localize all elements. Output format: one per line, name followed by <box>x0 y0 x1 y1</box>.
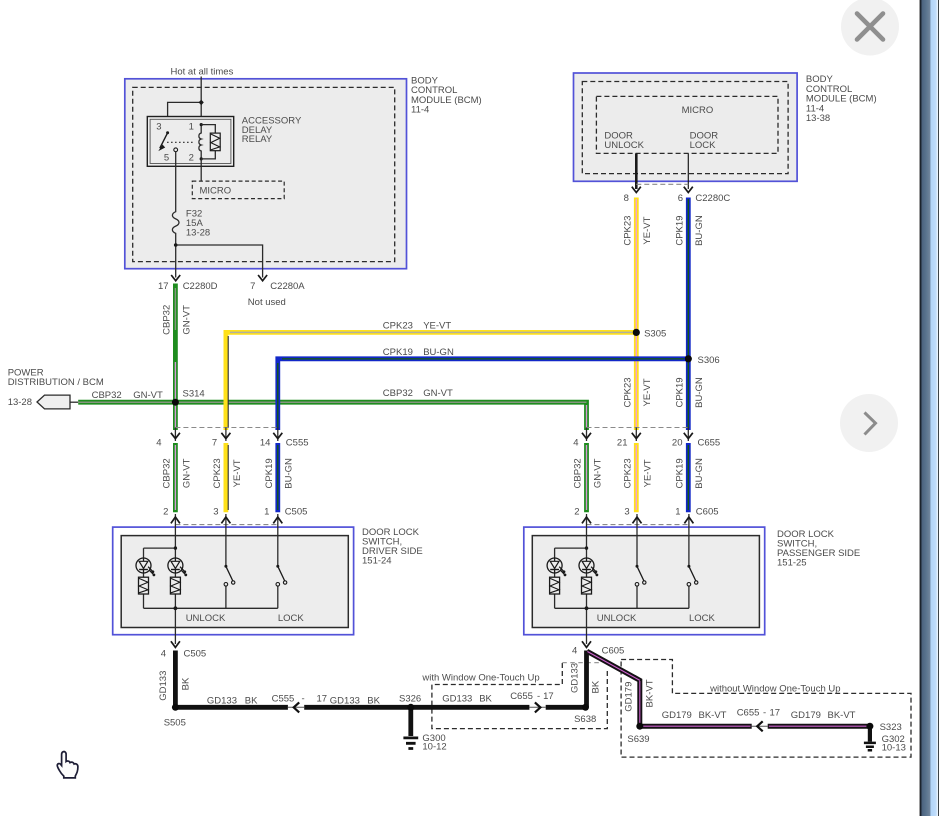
svg-text:S305: S305 <box>644 329 666 340</box>
svg-text:BK-VT: BK-VT <box>699 710 727 721</box>
svg-text:GN-VT: GN-VT <box>133 390 163 401</box>
svg-text:S505: S505 <box>164 717 186 728</box>
svg-text:BK: BK <box>245 696 258 707</box>
svg-text:13-28: 13-28 <box>8 397 32 408</box>
svg-text:CPK19: CPK19 <box>674 377 685 407</box>
svg-text:BU-GN: BU-GN <box>284 458 295 489</box>
svg-text:S639: S639 <box>627 734 649 745</box>
svg-text:C605: C605 <box>602 646 625 657</box>
svg-text:YE-VT: YE-VT <box>232 459 243 487</box>
svg-text:YE-VT: YE-VT <box>642 216 653 244</box>
svg-text:without Window One-Touch Up: without Window One-Touch Up <box>709 684 840 695</box>
svg-text:DISTRIBUTION / BCM: DISTRIBUTION / BCM <box>8 377 104 388</box>
svg-text:10-12: 10-12 <box>422 742 446 753</box>
svg-text:BK-VT: BK-VT <box>828 710 856 721</box>
svg-text:C605: C605 <box>696 507 719 518</box>
svg-text:6: 6 <box>678 193 683 204</box>
svg-text:CPK23: CPK23 <box>383 321 413 332</box>
svg-text:C2280D: C2280D <box>183 281 218 292</box>
svg-text:3: 3 <box>156 122 161 133</box>
svg-text:C655: C655 <box>510 691 533 702</box>
svg-text:17: 17 <box>317 694 328 705</box>
svg-text:3: 3 <box>624 507 629 518</box>
svg-text:CBP32: CBP32 <box>161 305 172 335</box>
svg-text:GN-VT: GN-VT <box>181 458 192 488</box>
svg-text:151-24: 151-24 <box>362 556 392 567</box>
svg-text:CBP32: CBP32 <box>573 458 584 488</box>
svg-text:C2280C: C2280C <box>695 193 730 204</box>
svg-text:LOCK: LOCK <box>690 140 717 151</box>
svg-text:GN-VT: GN-VT <box>423 388 453 399</box>
svg-text:BK: BK <box>180 677 191 690</box>
svg-text:BK: BK <box>591 680 602 693</box>
svg-text:-: - <box>302 694 305 705</box>
svg-text:4: 4 <box>573 437 578 448</box>
svg-text:C655: C655 <box>698 437 721 448</box>
svg-text:GD179: GD179 <box>624 682 635 712</box>
svg-text:4: 4 <box>161 649 166 660</box>
svg-text:21: 21 <box>617 437 628 448</box>
svg-text:10-13: 10-13 <box>882 743 906 754</box>
svg-text:GD133: GD133 <box>158 671 169 701</box>
svg-text:CPK19: CPK19 <box>264 458 275 488</box>
svg-text:Hot at all times: Hot at all times <box>171 67 234 78</box>
svg-text:GD133: GD133 <box>442 693 472 704</box>
svg-text:BU-GN: BU-GN <box>694 215 705 246</box>
svg-text:8: 8 <box>624 193 629 204</box>
svg-text:GN-VT: GN-VT <box>181 305 192 335</box>
svg-text:CPK19: CPK19 <box>674 216 685 246</box>
svg-text:YE-VT: YE-VT <box>642 459 653 487</box>
svg-text:with Window One-Touch Up: with Window One-Touch Up <box>421 672 539 683</box>
svg-text:CPK19: CPK19 <box>383 347 413 358</box>
svg-text:UNLOCK: UNLOCK <box>604 140 644 151</box>
svg-text:GN-VT: GN-VT <box>592 458 603 488</box>
svg-text:17: 17 <box>770 708 781 719</box>
svg-text:7: 7 <box>250 281 255 292</box>
svg-text:13-28: 13-28 <box>186 228 210 239</box>
svg-text:CPK23: CPK23 <box>622 458 633 488</box>
svg-text:BK: BK <box>479 693 492 704</box>
svg-text:14: 14 <box>260 437 271 448</box>
svg-text:1: 1 <box>189 122 194 133</box>
svg-text:5: 5 <box>164 153 169 164</box>
svg-text:C555: C555 <box>272 694 295 705</box>
svg-text:CBP32: CBP32 <box>383 388 413 399</box>
svg-text:Not used: Not used <box>248 297 286 308</box>
svg-text:4: 4 <box>156 437 161 448</box>
svg-text:BU-GN: BU-GN <box>694 377 705 408</box>
svg-text:CPK23: CPK23 <box>212 458 223 488</box>
svg-text:CBP32: CBP32 <box>92 390 122 401</box>
svg-text:CBP32: CBP32 <box>161 458 172 488</box>
svg-text:MICRO: MICRO <box>682 105 714 116</box>
svg-text:GD133: GD133 <box>207 696 237 707</box>
svg-text:MICRO: MICRO <box>200 186 232 197</box>
svg-text:17: 17 <box>158 281 169 292</box>
svg-text:GD179: GD179 <box>791 710 821 721</box>
svg-text:GD133: GD133 <box>330 696 360 707</box>
svg-text:20: 20 <box>672 437 683 448</box>
svg-text:BK: BK <box>367 696 380 707</box>
svg-text:2: 2 <box>574 507 579 518</box>
svg-text:S306: S306 <box>698 355 720 366</box>
svg-text:17: 17 <box>543 691 554 702</box>
svg-text:YE-VT: YE-VT <box>642 378 653 406</box>
svg-text:13-38: 13-38 <box>806 113 830 124</box>
svg-text:GD133: GD133 <box>570 663 581 693</box>
svg-text:S323: S323 <box>880 722 902 733</box>
svg-text:S314: S314 <box>183 389 205 400</box>
svg-text:C555: C555 <box>286 437 309 448</box>
svg-text:YE-VT: YE-VT <box>423 321 451 332</box>
svg-text:-: - <box>537 691 540 702</box>
svg-text:C2280A: C2280A <box>270 281 305 292</box>
svg-text:CPK23: CPK23 <box>622 377 633 407</box>
svg-text:151-25: 151-25 <box>777 558 807 569</box>
svg-text:2: 2 <box>189 153 194 164</box>
svg-text:S326: S326 <box>399 694 421 705</box>
svg-text:BK-VT: BK-VT <box>644 679 655 707</box>
svg-text:CPK19: CPK19 <box>674 458 685 488</box>
svg-text:2: 2 <box>163 507 168 518</box>
svg-text:-: - <box>763 708 766 719</box>
svg-text:4: 4 <box>572 646 577 657</box>
svg-text:BU-GN: BU-GN <box>694 458 705 489</box>
svg-text:CPK23: CPK23 <box>622 216 633 246</box>
svg-text:C655: C655 <box>737 708 760 719</box>
svg-text:BU-GN: BU-GN <box>423 347 454 358</box>
svg-text:1: 1 <box>675 507 680 518</box>
svg-text:C505: C505 <box>285 507 308 518</box>
svg-text:7: 7 <box>212 437 217 448</box>
svg-text:C505: C505 <box>184 649 207 660</box>
svg-text:GD179: GD179 <box>662 710 692 721</box>
svg-text:3: 3 <box>213 507 218 518</box>
svg-text:S638: S638 <box>574 714 596 725</box>
svg-text:RELAY: RELAY <box>242 134 273 145</box>
svg-text:11-4: 11-4 <box>411 105 429 116</box>
svg-text:1: 1 <box>264 507 269 518</box>
